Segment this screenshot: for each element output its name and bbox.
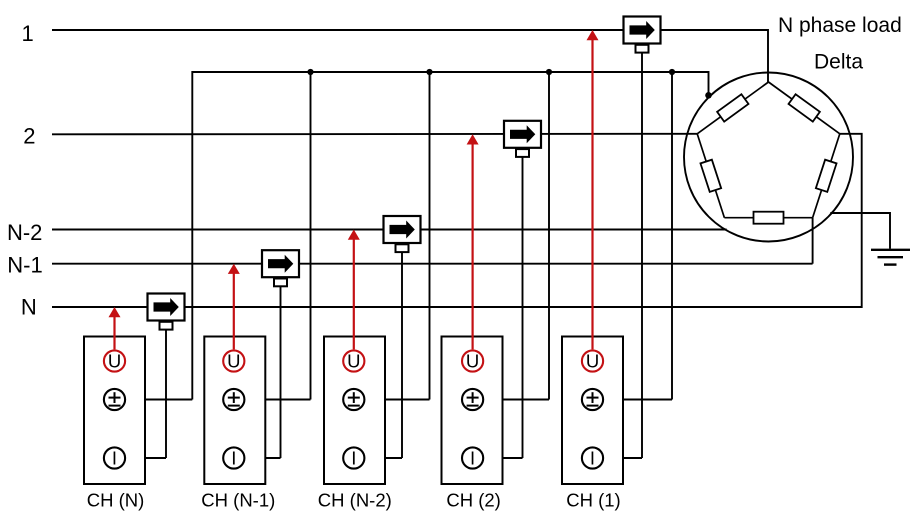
svg-text:CH (2): CH (2)	[446, 490, 500, 511]
svg-text:Delta: Delta	[814, 51, 863, 74]
svg-text:2: 2	[23, 124, 35, 149]
svg-text:I: I	[112, 448, 117, 469]
svg-text:CH (N-2): CH (N-2)	[318, 490, 392, 511]
svg-text:N-2: N-2	[7, 220, 42, 245]
svg-text:U: U	[108, 351, 121, 372]
svg-text:N-1: N-1	[7, 253, 42, 278]
svg-text:I: I	[351, 448, 356, 469]
svg-text:I: I	[470, 448, 475, 469]
svg-text:U: U	[586, 351, 599, 372]
svg-text:I: I	[231, 448, 236, 469]
svg-text:CH (1): CH (1)	[566, 490, 620, 511]
svg-text:N: N	[21, 295, 37, 320]
svg-text:U: U	[227, 351, 240, 372]
svg-text:U: U	[347, 351, 360, 372]
svg-text:CH (N): CH (N)	[87, 490, 145, 511]
svg-text:I: I	[590, 448, 595, 469]
svg-text:CH (N-1): CH (N-1)	[201, 490, 275, 511]
svg-text:U: U	[466, 351, 479, 372]
svg-text:1: 1	[21, 21, 33, 46]
svg-text:N phase load: N phase load	[778, 14, 902, 37]
